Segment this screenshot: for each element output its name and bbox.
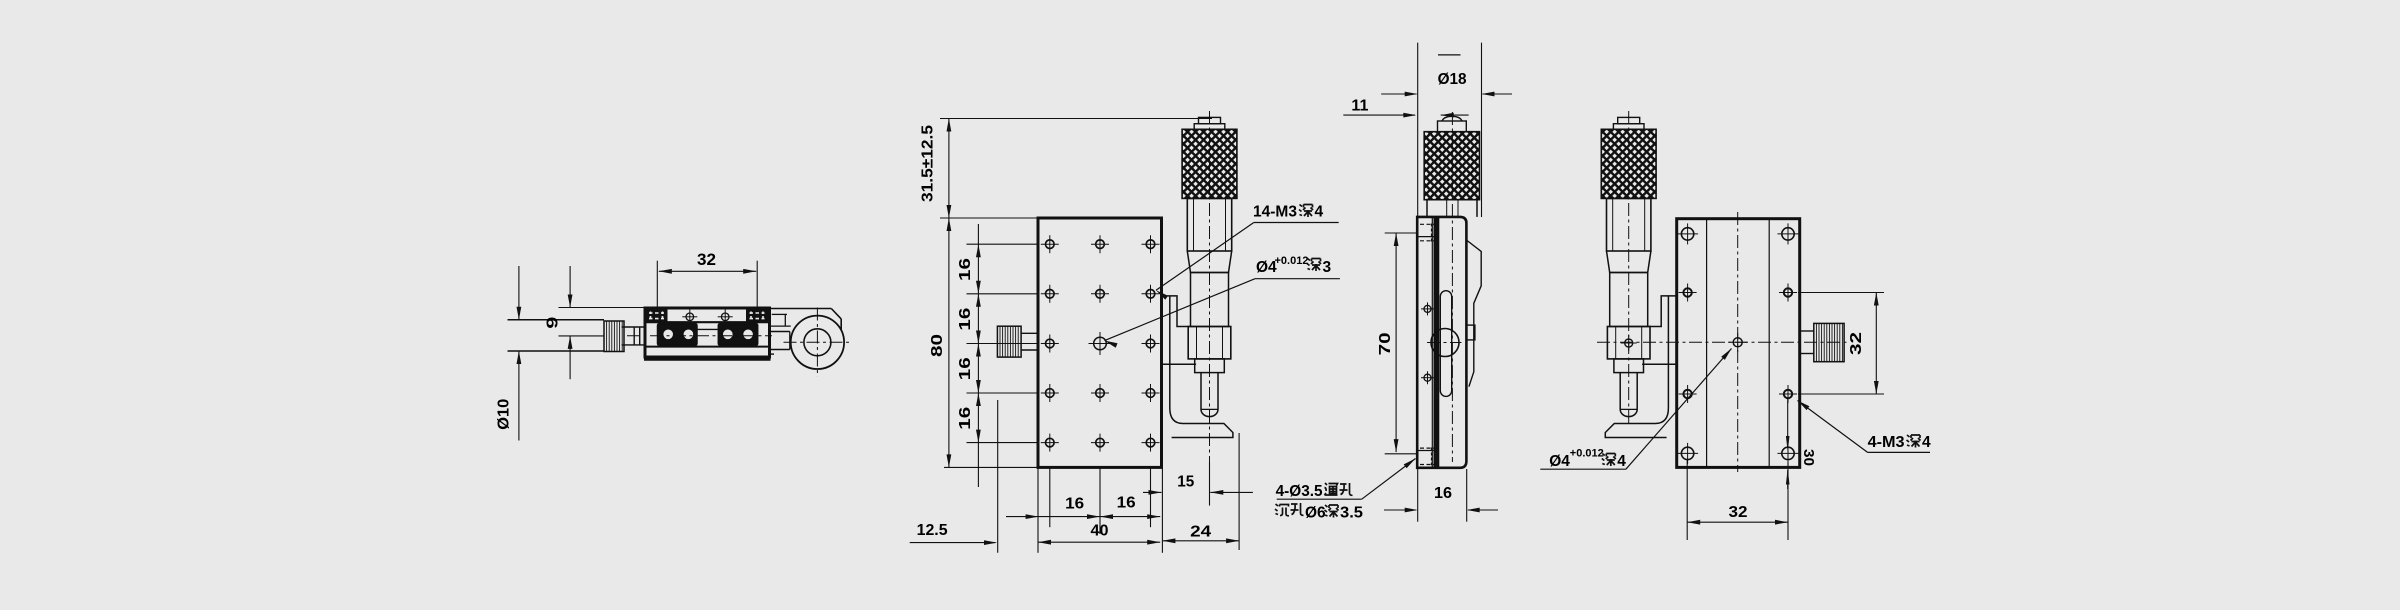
micrometer body [1187,198,1231,251]
svg-text:12.5: 12.5 [917,522,948,539]
view1 extra thick bottom edge [644,358,771,361]
view2 knob stem [1021,332,1038,334]
svg-text:3: 3 [1323,259,1332,276]
micrometer spindle [1620,373,1637,417]
dimension 16 16 bottom view2 [1006,516,1160,518]
view1 right adapter stem [771,331,790,333]
dimension 32 bottom view4 [1686,460,1688,540]
view3 micrometer neck [1426,200,1428,217]
view3 rear profile [1466,240,1481,387]
view4 M3 holes [1683,288,1691,296]
micrometer cap [1618,117,1640,123]
micrometer flange nut [1607,327,1650,359]
svg-text:32: 32 [1729,504,1748,521]
svg-text:16: 16 [957,407,974,430]
view4 plate outline [1677,219,1800,468]
svg-text:16: 16 [1434,485,1452,502]
micrometer centerline [1628,111,1630,425]
view4 vertical centerline [1737,212,1739,472]
svg-text:16: 16 [1117,495,1136,512]
micrometer assembly view2 [1113,111,1310,506]
view4 center hole [1733,338,1742,347]
dimension 32 right view4 [1798,292,1884,294]
svg-text:4-M3: 4-M3 [1868,434,1905,451]
dimension 30 view4 [1787,399,1789,448]
svg-text:4: 4 [1617,453,1626,470]
micrometer flange nut [1188,327,1231,359]
svg-text:Ø18: Ø18 [1438,71,1467,88]
dimension 16 stack view2 [967,243,1039,245]
micrometer bracket hook [1170,364,1233,437]
svg-text:9: 9 [545,317,562,329]
view2 hole grid [1046,240,1055,249]
svg-text:16: 16 [957,307,974,330]
svg-text:3.5: 3.5 [1340,505,1363,522]
micrometer taper [1187,251,1231,273]
view4 corner holes [1681,228,1693,240]
view2 plate outline [1038,218,1162,467]
view3 micrometer centerline [1451,112,1453,462]
micrometer bracket hook [1605,364,1668,437]
svg-text:16: 16 [957,357,974,380]
view3 micrometer cap [1442,116,1462,121]
view3 top separation [1417,236,1437,238]
view3 clamp tab [1466,325,1475,340]
view3 bottom separation [1417,450,1437,452]
svg-text:16: 16 [957,258,974,281]
view1 right adapter top [771,308,832,310]
dimension 15 view2 [1143,491,1162,493]
view4 inner lines [1706,219,1708,468]
view3 slot [1440,291,1451,397]
dimension 31.5 view2 [940,118,1212,120]
view3 slider interface band [1431,217,1433,468]
view1 top strip hole left [686,313,694,321]
svg-text:14-M3: 14-M3 [1253,204,1297,221]
view1 top strip hole right [721,313,729,321]
dimension 80 view2 [948,218,950,467]
view2 bottom extension lines [1037,467,1039,552]
view4 right knob [1816,323,1842,361]
view1 inner top separation line [646,321,768,323]
svg-text:4: 4 [1315,204,1324,221]
svg-text:+0.012: +0.012 [1275,255,1309,267]
micrometer sleeve [1191,273,1229,327]
view3 center circle [1431,329,1459,357]
view3 small hole top [1424,305,1431,312]
leader to view3 corner [1362,459,1416,500]
view4 micrometer assembly (mirrored) [1528,111,1725,438]
micrometer bracket upper arm [1649,296,1677,327]
dimension 16 view3 [1417,469,1419,522]
svg-text:32: 32 [1848,332,1865,355]
svg-text:32: 32 [697,250,716,269]
micrometer centerline [1209,111,1211,462]
svg-text:31.5±12.5: 31.5±12.5 [920,125,937,202]
svg-text:4-Ø3.5: 4-Ø3.5 [1276,483,1323,500]
dimension 32 view1 [656,261,658,312]
view1 micrometer end circle outer [791,316,844,369]
svg-text:70: 70 [1377,332,1394,355]
svg-text:30: 30 [1800,449,1817,466]
view1 rail line between blocks [697,328,718,330]
view1 inner bottom separation line [646,346,768,348]
dimension 9 view1 [559,307,646,309]
svg-text:15: 15 [1177,473,1194,490]
svg-text:16: 16 [1065,495,1084,512]
dimension 70 view3 [1385,232,1418,234]
micrometer step [1195,359,1225,373]
view1 clamp block left [646,310,667,323]
view1 bearing block right [718,324,757,346]
view3 small hole bottom [1424,374,1431,381]
view1 spindle cylinder [508,319,605,321]
micrometer spindle [1201,373,1218,417]
svg-text:40: 40 [1091,522,1109,539]
svg-text:4: 4 [1922,434,1931,451]
view2 center hole D4 [1094,337,1107,350]
svg-text:Ø6: Ø6 [1305,505,1326,522]
svg-text:+0.012: +0.012 [1570,447,1604,459]
dimension D10 view1 [518,266,520,320]
view1 left lock knob [607,321,623,352]
view1 stage body outline [645,308,770,357]
view1 micrometer end circle inner [804,329,831,356]
view2 left knob [1000,326,1018,357]
view4 horizontal centerline [1597,341,1848,343]
view1 circle crosshair [784,341,853,343]
svg-text:Ø10: Ø10 [496,399,513,430]
label counterbore D6 deep3.5 [1275,504,1289,516]
dimension 24 view2 [1162,540,1239,542]
view3 clamp mark top [1420,223,1434,225]
svg-text:11: 11 [1351,97,1368,114]
micrometer step [1614,359,1644,373]
dimension 40 view2 [1038,541,1160,543]
dimension D18 view3 [1438,54,1461,56]
dimension 12.5 view2 [910,542,996,544]
micrometer bracket upper arm [1162,296,1190,327]
view3 plate outline [1417,217,1466,468]
view1 centerline [627,335,772,337]
view1 bearing block left [658,324,698,346]
view4 flange lock hole [1625,339,1633,347]
view3 clamp mark bottom [1420,447,1434,449]
svg-text:Ø4: Ø4 [1549,453,1570,470]
svg-text:80: 80 [929,334,946,357]
view1 knob shaft [622,326,645,328]
micrometer sleeve [1610,273,1648,327]
micrometer cap [1199,117,1221,123]
micrometer taper [1607,251,1651,273]
svg-text:24: 24 [1190,524,1211,541]
micrometer body [1606,198,1650,251]
view1 clamp block right [747,310,768,323]
